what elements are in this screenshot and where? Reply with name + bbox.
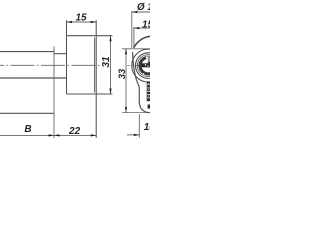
svg-text:31: 31: [101, 56, 112, 68]
dimension 15 (end view) extension line: [133, 27, 135, 46]
knurl ring outer circle: [137, 55, 159, 77]
cylinder body top edge: [0, 51, 54, 53]
dimension 22 line: [54, 134, 96, 136]
dimension 15 (end view) line: [134, 27, 150, 29]
dimension 33 bottom arrow: [125, 107, 127, 113]
dimension B line: [0, 134, 54, 136]
dimension 31 (knob diameter) line: [110, 36, 112, 94]
dimension 33 top arrow: [125, 49, 127, 55]
svg-text:10: 10: [144, 122, 150, 133]
svg-text:Ø 17: Ø 17: [137, 2, 150, 13]
dimension 10 line: [127, 134, 140, 136]
centerline of cylinder axis (side view): [0, 64, 101, 66]
stem stamped marks: [146, 81, 150, 108]
dia 17 arrow: [132, 11, 138, 13]
body/stem boundary edge: [0, 77, 67, 79]
end view group: [117, 2, 165, 138]
knob front face line + extensions up and down: [95, 20, 97, 138]
knurled ring (dark annulus): [140, 57, 157, 74]
dark band across center: [142, 63, 151, 67]
dimension 22 right arrow: [91, 134, 97, 136]
dimension 10 arrow: [134, 134, 140, 136]
knob top edge with extension to 31-dim: [67, 35, 113, 37]
dimension 15 right arrow: [91, 21, 97, 23]
dimension 10 extension line: [138, 114, 140, 138]
dimension 31 top arrow: [109, 36, 111, 42]
dimension 15 left arrow: [67, 21, 73, 23]
dimension 15 (end view) arrow: [134, 27, 140, 29]
svg-text:B: B: [24, 124, 31, 135]
profile stem bottom edge: [0, 112, 54, 114]
dimension B right arrow: [49, 134, 55, 136]
svg-text:22: 22: [68, 126, 81, 137]
white sector cut upper right of ring: [146, 56, 150, 65]
neck top edge: [54, 53, 67, 55]
knob outer arc (end view): [134, 36, 150, 48]
svg-text:15: 15: [142, 20, 150, 31]
svg-text:33: 33: [117, 68, 127, 79]
end view centerline: [127, 64, 150, 66]
knurl texture white specks: [145, 64, 146, 66]
knob bottom edge with extension to 31-dim: [67, 93, 113, 95]
dia 17 extension line: [131, 11, 133, 48]
bottom tangent extension line (33 dim bottom): [122, 112, 150, 114]
dimension 15 (knob length) line: [67, 21, 97, 23]
dimension 33 line: [125, 49, 127, 113]
slot line at center top: [147, 56, 149, 64]
dimension 31 bottom arrow: [109, 89, 111, 95]
oval body outline (end view): [133, 52, 151, 113]
dia 17 dimension line: [132, 11, 150, 13]
top tangent extension line (33 dim top): [122, 48, 150, 50]
body face junction / extension line B-22: [53, 47, 55, 139]
dimension 22 left arrow: [54, 134, 60, 136]
plug circle dia 17: [132, 49, 165, 82]
svg-text:15: 15: [75, 13, 87, 24]
knob face circle: [136, 53, 162, 79]
knob rear face line + extension up: [66, 20, 68, 94]
knob face chamfer inner line: [94, 38, 96, 93]
